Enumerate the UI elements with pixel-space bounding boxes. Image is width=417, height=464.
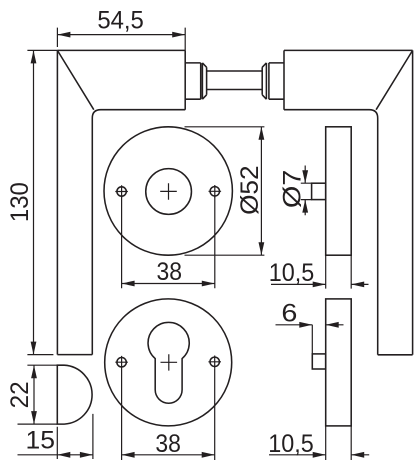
svg-text:Ø7: Ø7: [278, 170, 306, 209]
escutcheon side view cylinder tab: [312, 354, 325, 369]
right handle lever body: [284, 50, 413, 354]
escutcheon side view plate: [326, 299, 352, 426]
rose right screw: [209, 185, 222, 198]
handle grip end view (D shape): [57, 365, 92, 424]
left collar ring: [202, 63, 206, 99]
svg-text:22: 22: [6, 381, 34, 408]
escutcheon right screw: [208, 356, 221, 369]
left handle lever body: [57, 50, 185, 354]
right handle neck: [269, 63, 284, 99]
svg-text:15: 15: [26, 426, 56, 454]
left handle neck: [185, 63, 201, 99]
svg-text:Ø52: Ø52: [236, 165, 264, 215]
rose side view spindle tab: [312, 183, 326, 199]
dimension 10,5 bottom: [268, 426, 369, 460]
dimension 130: [6, 50, 57, 354]
rose side view plate: [326, 127, 352, 255]
svg-text:10,5: 10,5: [268, 430, 314, 458]
spindle: [207, 71, 263, 90]
svg-text:54,5: 54,5: [97, 6, 144, 34]
escutcheon keyhole: [148, 322, 189, 403]
svg-text:6: 6: [281, 300, 297, 328]
svg-text:38: 38: [155, 430, 181, 458]
svg-text:130: 130: [6, 182, 34, 222]
right collar ring: [262, 63, 266, 99]
dimension 38 top: [122, 196, 215, 288]
svg-text:10,5: 10,5: [269, 259, 315, 287]
rose inner circle: [146, 169, 192, 215]
rose left screw: [115, 185, 128, 198]
dimension 6: [276, 300, 344, 354]
rose outer circle: [104, 127, 232, 255]
escutcheon outer circle: [105, 299, 232, 426]
rose center cross: [160, 183, 177, 200]
dimension 10,5 upper: [269, 255, 369, 288]
escutcheon left screw: [115, 356, 128, 369]
svg-text:38: 38: [157, 258, 183, 286]
dimension O7: [278, 166, 311, 216]
dimension 15: [18, 414, 93, 459]
dimension 38 bottom: [122, 368, 215, 460]
dimension O52: [185, 127, 265, 255]
escutcheon center cross: [161, 354, 178, 370]
dimension 54,5: [57, 6, 185, 50]
dimension 22: [6, 365, 57, 424]
